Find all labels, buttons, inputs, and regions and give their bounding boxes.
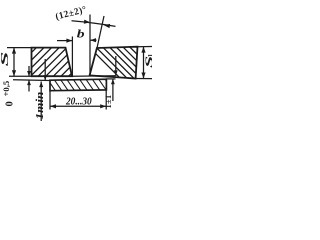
dimension 20...30 [50, 90, 106, 110]
backing strip [46, 77, 115, 93]
svg-text:20...30: 20...30 [65, 96, 92, 108]
svg-text:b: b [77, 28, 85, 41]
angle dimension (12±2)° [54, 4, 115, 48]
wire: backing top extension left [13, 79, 50, 82]
dimension b [57, 15, 97, 77]
svg-text:1: 1 [147, 53, 152, 57]
dimension S [0, 48, 16, 77]
wire: left plate bottom extension left [9, 75, 32, 77]
svg-text:+0,5: +0,5 [1, 81, 11, 97]
dimension 1±1 [72, 56, 118, 109]
svg-text:1min: 1min [34, 92, 45, 120]
wire: S top extension tick [7, 47, 32, 49]
right plate [82, 40, 175, 85]
svg-text:0: 0 [5, 101, 16, 106]
dimension 1min [34, 82, 45, 122]
dimension S1 [136, 47, 155, 79]
dimension 0+0,5 [1, 66, 31, 107]
left plate [4, 40, 105, 80]
arrow down to backing top [43, 59, 47, 80]
svg-text:S: S [0, 52, 11, 67]
